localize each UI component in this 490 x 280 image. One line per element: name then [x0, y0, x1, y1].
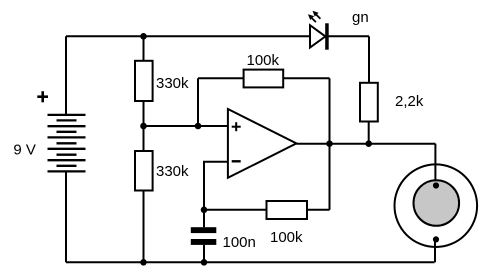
resistor R1 330k (upper divider) [135, 61, 153, 101]
wire output down to photocell top terminal [434, 144, 436, 186]
wire LED cathode to corner and down to 2,2k [368, 36, 370, 83]
wire battery positive lead [65, 36, 67, 115]
wire bottom rail [66, 261, 435, 263]
wire vertical bottom 100k to output node [329, 144, 331, 210]
wire R2 bottom lead [143, 191, 145, 263]
op-amp U1 triangle [228, 109, 297, 178]
node F junction dot (output / 2,2k) [365, 140, 372, 147]
photocell LDR inner disc [414, 180, 460, 226]
svg-text:gn: gn [352, 9, 369, 26]
photocell LDR outer circle [395, 164, 478, 247]
svg-text:100k: 100k [270, 229, 303, 246]
wire feedback right vertical down to output [329, 78, 331, 143]
wire op-amp inverting input [204, 162, 228, 210]
wire op-amp output rail [296, 143, 435, 145]
LED D1 triangle (anode) [310, 25, 325, 47]
photocell top terminal dot [433, 182, 439, 188]
node G junction dot (R2 / bottom rail) [140, 259, 147, 266]
wire divider midpoint to op-amp + input [144, 125, 228, 127]
wire R1 top lead [143, 36, 145, 61]
photocell bottom terminal dot [433, 236, 439, 242]
battery BT1 9V plates [48, 115, 86, 171]
svg-text:330k: 330k [156, 163, 189, 180]
resistor R3 100k (feedback) [244, 70, 284, 88]
LED D1 emission arrow 1 [308, 14, 316, 22]
wire feedback vertical from + node [197, 78, 199, 126]
wire 2,2k bottom lead [368, 122, 370, 144]
capacitor C1 100n plates [191, 227, 217, 245]
node C junction dot (feedback / + input wire) [195, 123, 202, 130]
wire photocell bottom terminal to bottom rail [434, 239, 436, 262]
svg-text:330k: 330k [156, 75, 189, 92]
wire battery negative lead [65, 171, 67, 262]
wire feedback horizontal to 100k left [198, 77, 244, 79]
svg-text:2,2k: 2,2k [395, 93, 424, 110]
LED D1 cathode bar [325, 23, 329, 49]
wire R1 bottom lead [143, 101, 145, 126]
wire node to bottom 100k left [204, 209, 267, 211]
svg-text:100n: 100n [223, 234, 256, 251]
resistor R4 100k (bottom) [267, 201, 308, 219]
resistor R2 330k (lower divider) [135, 151, 153, 191]
wire R2 top lead [143, 126, 145, 151]
LED D1 emission arrow 2 [313, 11, 321, 19]
node B junction dot (divider midpoint) [140, 123, 147, 130]
svg-text:100k: 100k [247, 52, 280, 69]
svg-text:9 V: 9 V [13, 141, 36, 158]
wire bottom 100k right to vertical [307, 209, 330, 211]
wire top rail [66, 35, 369, 37]
node H junction dot (C1 / bottom rail) [201, 259, 208, 266]
node D junction dot (inverting input / C1 / R4) [201, 207, 208, 214]
wire capacitor bottom lead [203, 245, 205, 262]
wire capacitor top lead [203, 210, 205, 227]
node E junction dot (output / feedback vertical) [326, 140, 333, 147]
node A junction dot (top rail / R1) [140, 33, 147, 40]
op-amp non-inverting input + symbol [232, 122, 241, 131]
resistor R5 2,2k [360, 83, 378, 122]
battery plus sign [37, 91, 48, 102]
op-amp inverting input - symbol [232, 160, 241, 162]
wire 100k feedback right to output vertical [283, 77, 329, 79]
